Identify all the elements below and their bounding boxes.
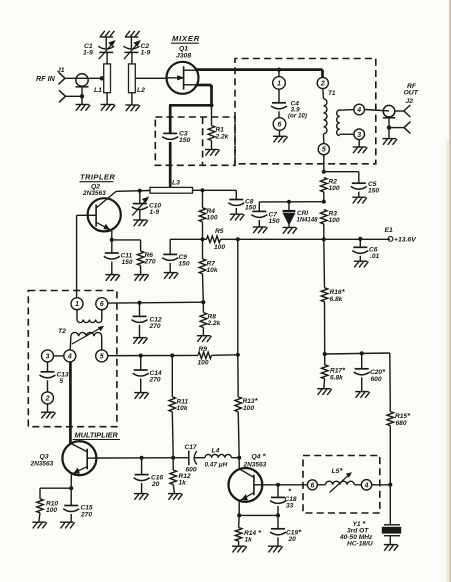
svg-text:100: 100	[214, 244, 225, 251]
svg-text:2: 2	[45, 395, 50, 402]
svg-text:J2: J2	[406, 98, 414, 105]
svg-text:150: 150	[179, 261, 190, 268]
svg-text:1-9: 1-9	[83, 50, 93, 57]
svg-text:5: 5	[322, 147, 326, 154]
svg-text:1k: 1k	[179, 480, 187, 487]
svg-text:J308: J308	[176, 53, 191, 60]
svg-text:150: 150	[245, 205, 256, 212]
svg-text:6.8k: 6.8k	[330, 375, 343, 382]
svg-text:2.2k: 2.2k	[207, 320, 221, 327]
svg-text:2.2k: 2.2k	[215, 133, 229, 140]
svg-text:R13*: R13*	[243, 396, 259, 405]
svg-text:270: 270	[149, 323, 161, 330]
svg-text:MIXER: MIXER	[172, 34, 200, 43]
svg-text:L4: L4	[212, 448, 220, 455]
svg-text:3: 3	[357, 132, 361, 139]
svg-text:3: 3	[46, 353, 50, 360]
svg-text:C20*: C20*	[370, 367, 386, 376]
svg-text:R9: R9	[199, 346, 208, 353]
svg-text:Q1: Q1	[179, 46, 188, 53]
svg-text:L1: L1	[94, 87, 102, 94]
svg-text:1: 1	[75, 301, 79, 308]
svg-text:150: 150	[269, 218, 280, 225]
svg-text:1: 1	[277, 80, 281, 87]
svg-text:C15: C15	[81, 505, 93, 512]
svg-text:CRI: CRI	[297, 210, 308, 217]
svg-text:100: 100	[46, 507, 57, 514]
svg-text:5: 5	[60, 378, 64, 385]
svg-text:R16*: R16*	[330, 287, 346, 296]
svg-text:(or 10): (or 10)	[288, 113, 307, 120]
svg-text:1N4148: 1N4148	[297, 218, 319, 224]
svg-text:TRIPLER: TRIPLER	[80, 173, 115, 182]
svg-text:600: 600	[186, 467, 197, 474]
svg-text:T2: T2	[58, 328, 66, 335]
svg-text:270: 270	[144, 259, 156, 266]
svg-text:150: 150	[122, 259, 133, 266]
svg-text:10k: 10k	[207, 267, 218, 274]
svg-text:2N3563: 2N3563	[82, 190, 106, 197]
svg-text:4: 4	[364, 482, 369, 489]
svg-text:20: 20	[288, 536, 297, 543]
svg-text:Q4 *: Q4 *	[252, 452, 267, 461]
svg-text:HC-18/U: HC-18/U	[347, 540, 373, 547]
svg-text:6: 6	[310, 482, 314, 489]
svg-text:E1: E1	[385, 227, 394, 234]
svg-text:RF IN: RF IN	[36, 74, 56, 83]
svg-text:L3: L3	[172, 180, 180, 187]
svg-text:1-9: 1-9	[150, 209, 160, 216]
svg-text:6: 6	[100, 301, 104, 308]
svg-text:150: 150	[368, 188, 379, 195]
svg-text:100: 100	[329, 217, 340, 224]
svg-text:20: 20	[151, 481, 160, 488]
svg-text:L5*: L5*	[332, 466, 344, 475]
svg-text:600: 600	[371, 376, 382, 383]
svg-text:5: 5	[100, 353, 104, 360]
svg-text:10k: 10k	[177, 405, 188, 412]
svg-text:6: 6	[278, 122, 282, 129]
svg-text:150: 150	[179, 137, 191, 144]
svg-text:2: 2	[320, 81, 325, 88]
svg-text:270: 270	[80, 512, 92, 519]
svg-text:680: 680	[396, 420, 407, 427]
svg-text:MULTIPLIER: MULTIPLIER	[75, 430, 119, 439]
svg-text:270: 270	[149, 377, 161, 384]
svg-text:T1: T1	[328, 90, 336, 97]
svg-text:100: 100	[329, 185, 340, 192]
svg-text:0.47 μH: 0.47 μH	[205, 462, 228, 469]
svg-text:1k: 1k	[245, 537, 253, 544]
svg-text:OUT: OUT	[404, 90, 419, 97]
svg-text:4: 4	[356, 107, 361, 114]
svg-text:R5: R5	[215, 228, 224, 235]
svg-text:+13.6V: +13.6V	[394, 237, 417, 244]
svg-text:R15*: R15*	[395, 411, 411, 420]
svg-text:C17: C17	[185, 444, 197, 451]
svg-text:6.8k: 6.8k	[330, 296, 343, 303]
svg-text:R17*: R17*	[330, 366, 346, 375]
svg-text:100: 100	[198, 360, 209, 367]
svg-text:1-9: 1-9	[141, 50, 151, 57]
svg-text:33: 33	[286, 503, 294, 510]
svg-text:4: 4	[67, 353, 72, 360]
svg-text:L2: L2	[137, 87, 145, 94]
svg-text:.01: .01	[370, 253, 379, 260]
svg-text:100: 100	[207, 215, 218, 222]
svg-text:2N3563: 2N3563	[30, 460, 54, 467]
svg-text:100: 100	[243, 405, 254, 412]
